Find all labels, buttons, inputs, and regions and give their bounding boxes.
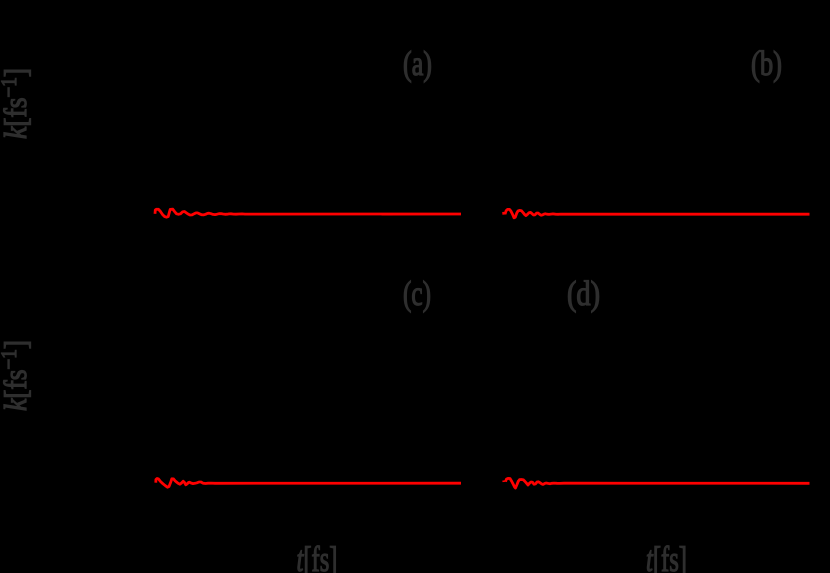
y label k[fs^-1] bottom [0, 340, 33, 411]
curve c [156, 479, 461, 488]
curve d [504, 478, 810, 488]
curve b [504, 209, 810, 217]
svg-text:(b): (b) [751, 45, 782, 83]
svg-text:(c): (c) [403, 275, 431, 313]
svg-text:t[fs]: t[fs] [646, 539, 687, 573]
y label k[fs^-1] top [0, 68, 33, 139]
svg-text:t[fs]: t[fs] [297, 539, 338, 573]
svg-text:(a): (a) [403, 45, 432, 83]
curve a [155, 209, 461, 217]
svg-text:(d): (d) [567, 275, 600, 313]
